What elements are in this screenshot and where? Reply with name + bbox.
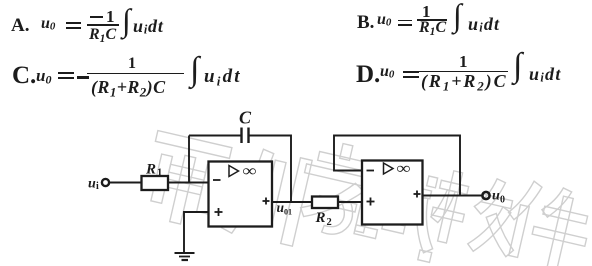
- option B: [357, 12, 374, 34]
- wire capacitor to op-amp U1 output: [249, 136, 292, 203]
- svg-text:i: i: [96, 181, 99, 192]
- svg-text:u: u: [88, 177, 96, 192]
- svg-text:R: R: [315, 210, 326, 226]
- watermark char 2: [221, 144, 312, 247]
- wire R1 to op-amp inverting input: [168, 182, 209, 184]
- wire U2 output to terminal: [423, 195, 483, 197]
- svg-text:2: 2: [327, 217, 332, 228]
- op-amp U2 inverting input marker: [367, 170, 375, 172]
- svg-text:C: C: [239, 108, 252, 128]
- svg-text:u: u: [492, 189, 500, 204]
- wire U1 non-inverting input to ground: [184, 212, 209, 253]
- op-amp U1 body: [209, 162, 273, 227]
- op-amp U2 output polarity marker: [414, 191, 421, 198]
- capacitor C: [239, 108, 252, 144]
- svg-text:R: R: [145, 162, 156, 178]
- wire node to capacitor: [189, 135, 242, 137]
- watermark char 4: [350, 162, 449, 262]
- wire U2 feedback loop (output to inverting input): [334, 136, 460, 196]
- op-amp U1 output polarity marker: [263, 198, 270, 205]
- watermark char 6: [498, 177, 592, 266]
- option D: [356, 61, 380, 89]
- svg-text:1: 1: [157, 168, 162, 179]
- node u01 label: [277, 200, 293, 217]
- wire input to R1: [110, 182, 142, 184]
- svg-text:0: 0: [500, 195, 505, 206]
- watermark char 3: [292, 137, 387, 243]
- watermark char 1: [139, 131, 232, 232]
- watermark char 5: [425, 166, 528, 260]
- op-amp U2 non-inverting input marker: [367, 198, 375, 206]
- ground: [175, 253, 195, 260]
- resistor R1: [142, 162, 169, 191]
- option C: [12, 62, 36, 90]
- op-amp U2 body: [362, 159, 423, 224]
- input terminal u_i: [88, 177, 109, 193]
- resistor R2: [312, 197, 338, 229]
- output terminal u0: [482, 189, 505, 206]
- wire R2 to op-amp U2 non-inverting input: [338, 201, 362, 203]
- op-amp U1 non-inverting input marker: [215, 208, 223, 216]
- wire U1 output to R2 / node u01: [272, 201, 312, 203]
- node: junction of R1 wire and C branch: [188, 136, 190, 183]
- op-amp U1 inverting input marker: [213, 179, 221, 181]
- svg-text:∞: ∞: [397, 159, 411, 177]
- option A: [11, 15, 29, 37]
- svg-text:01: 01: [284, 208, 292, 217]
- svg-text:∞: ∞: [243, 162, 257, 180]
